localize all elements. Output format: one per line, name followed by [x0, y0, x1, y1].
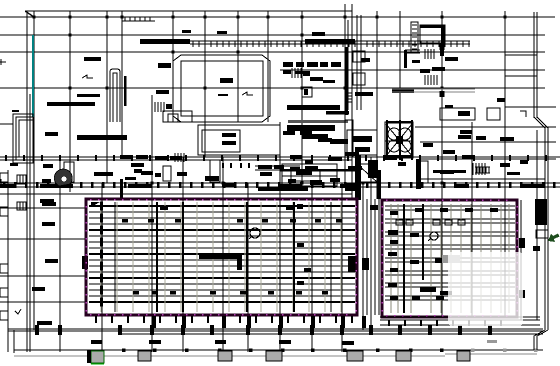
spiral stair — [54, 169, 72, 186]
left bars extra — [10, 110, 56, 206]
wall bar B — [287, 105, 340, 110]
wall bar A — [305, 39, 355, 44]
small bracket mark — [520, 111, 526, 117]
hall 2 boundary dark band — [382, 200, 517, 317]
hall 2 misc blobs — [370, 205, 498, 300]
hall 1 right door block — [348, 256, 356, 272]
footings under wall — [138, 351, 470, 361]
rooftop unit: hatch column — [405, 22, 445, 53]
thick wall bar left — [77, 135, 127, 140]
dimension text blobs upper — [32, 30, 520, 325]
left dimension ticks — [0, 59, 6, 185]
hall 2 window symbol row — [396, 220, 465, 225]
lift shaft tall U — [110, 69, 120, 122]
extra mid-right blobs — [0, 155, 528, 188]
hatch block (stairs) — [152, 102, 164, 112]
column stubs below halls — [95, 316, 502, 328]
building left wall — [27, 11, 30, 352]
right section lower wall — [380, 317, 540, 325]
ladder hatch mid-right — [475, 167, 490, 173]
dark segments on band y184 — [0, 184, 544, 188]
dark column x121 — [120, 179, 123, 199]
double vertical x357 top — [357, 15, 361, 110]
left pilasters — [0, 170, 8, 352]
gray double bar — [392, 89, 475, 92]
hall 1 boundary magenta dots — [86, 199, 358, 316]
corner wedge — [91, 202, 100, 207]
pump station table — [282, 164, 337, 186]
box with cross — [357, 164, 377, 182]
building outer wall top edge — [25, 11, 352, 17]
green arrow — [548, 234, 560, 243]
hall 2 kettle symbol — [430, 232, 438, 240]
dark vertical bands mid — [355, 155, 361, 200]
tick-line mark — [82, 75, 93, 78]
teal service riser line — [32, 35, 34, 117]
roof fan unit — [385, 122, 413, 158]
hall 2 roof beams paired — [385, 206, 515, 300]
check mark — [15, 309, 21, 314]
hall 1 dash rows — [122, 204, 342, 295]
wall thick band — [140, 39, 190, 44]
hall 2 main beam verticals — [404, 204, 423, 313]
hatch block c — [175, 49, 485, 175]
right edge boundary and chamfer — [534, 117, 548, 350]
dark line y169 — [280, 169, 355, 172]
pump room equipment bars — [222, 133, 236, 145]
stairs outline — [163, 111, 192, 122]
green footing detail — [91, 351, 104, 363]
gray bar mid — [288, 120, 348, 123]
dark bar right — [392, 88, 414, 93]
small N box — [302, 87, 312, 97]
hall 2 secondary verticals — [391, 204, 509, 313]
hall 1 roof beams — [89, 206, 355, 302]
bottom outer wall — [14, 330, 543, 353]
window boxes right of x352 — [353, 51, 365, 85]
grid node dots — [33, 16, 507, 185]
pump room — [198, 125, 280, 155]
small hatch strip — [122, 17, 155, 21]
equipment pads — [440, 108, 500, 120]
small ladder left — [17, 175, 26, 210]
mid band bars left — [42, 163, 144, 183]
horizontal grid lines — [0, 17, 560, 302]
hall 1 main beam verticals — [157, 202, 294, 312]
hall 2 right strip line — [520, 200, 522, 320]
column ticks on line y183 — [3, 182, 556, 188]
dark wall band x345 — [345, 47, 348, 115]
hall 2 dark bar — [435, 258, 455, 263]
foundation column marks — [35, 325, 492, 335]
small ticks row — [222, 163, 250, 168]
foundation beam lines — [8, 329, 543, 334]
corridor between halls — [367, 199, 379, 315]
hall 1 beam end ticks — [100, 202, 103, 307]
structure right of fan — [347, 130, 377, 155]
footing labels — [91, 340, 497, 345]
hall 1 kettle symbol — [250, 228, 260, 238]
watermark — [448, 252, 523, 326]
rooftop unit dark bars — [420, 25, 445, 28]
right loading dock block — [535, 199, 547, 225]
ladder hatch strip — [190, 41, 470, 47]
stairwell nested rectangles — [13, 114, 33, 163]
hall 1 centre duct bar — [199, 253, 240, 259]
machine room with chamfered corners — [173, 55, 270, 122]
hall 1 left door block — [82, 256, 88, 269]
hall 1 secondary verticals — [101, 202, 341, 312]
mid band equipment blobs — [55, 130, 486, 191]
column ticks on line y157 — [5, 155, 547, 161]
small ladder on wall — [346, 93, 352, 102]
node squares on x442 — [440, 44, 445, 50]
small shafts — [64, 120, 428, 183]
hall 2 boundary magenta dots — [382, 200, 519, 317]
hall 1 boundary dark band — [86, 199, 357, 315]
wall node dots — [122, 349, 444, 353]
